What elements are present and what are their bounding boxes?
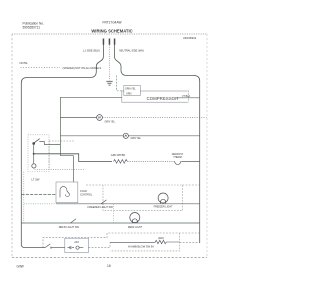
freezer light switch: [101, 200, 107, 204]
wire bus to cold control: [21, 194, 56, 196]
wire freezer light row: [56, 203, 200, 205]
condenser fan motor M1: [97, 115, 103, 121]
svg-text:GRN WH/BK: GRN WH/BK: [111, 154, 126, 157]
interior light lamp: [32, 164, 36, 168]
NOTE legend: [20, 61, 102, 70]
dashed border left: [11, 34, 13, 258]
freezer light dashed box: [103, 185, 182, 211]
dashed border right: [206, 34, 208, 258]
wire adj box out dashed: [88, 242, 110, 247]
shaded wire freezer row left dashed: [24, 203, 56, 205]
wire to condenser fan: [60, 117, 96, 119]
plug prong neutral: [109, 39, 111, 45]
svg-text:GRN YEL: GRN YEL: [105, 120, 116, 123]
wire hi-amb to bus dashed: [180, 241, 200, 243]
svg-text:WIRING SCHEMATIC: WIRING SCHEMATIC: [91, 28, 132, 33]
ground symbol: [106, 81, 112, 85]
wire L1 from plug to left bus: [21, 45, 103, 248]
svg-text:HI AMB BLOW SW 9A: HI AMB BLOW SW 9A: [128, 244, 154, 248]
ground wire dotted from middle prong: [109, 45, 111, 81]
evap fan motor M2: [123, 133, 128, 138]
shaded mullion wire dashed: [43, 233, 200, 248]
dashed border bottom: [12, 257, 207, 259]
hi-amb heater coil: [110, 240, 180, 243]
svg-text:24036901: 24036901: [183, 36, 197, 40]
wire switch to lamp: [33, 144, 35, 164]
svg-text:L1 SIDE (BLK): L1 SIDE (BLK): [83, 49, 100, 53]
svg-text:FRT17G4AW: FRT17G4AW: [103, 20, 122, 24]
wire thermostat to right bus: [182, 161, 200, 163]
refrigerator light row wire: [21, 222, 199, 224]
light circuit return dashed: [23, 172, 25, 223]
svg-text:THERM: THERM: [173, 156, 182, 159]
svg-text:GRN-YEL: GRN-YEL: [125, 87, 136, 90]
wire neutral from plug to right bus: [115, 45, 200, 244]
svg-text:(ADJ): (ADJ): [158, 237, 164, 240]
wire condenser fan to right bus dotted: [102, 117, 206, 119]
freezer light lamp: [158, 193, 168, 203]
shaded wire to freezer box dashed: [86, 184, 200, 186]
svg-text:GWF: GWF: [17, 265, 25, 269]
wire run winding to left vertical: [60, 96, 121, 98]
ground branch wire to compressor shell: [117, 76, 124, 91]
svg-text:COMPRESSOR: COMPRESSOR: [147, 96, 179, 101]
refr light lamp: [130, 213, 140, 223]
compressor box: [122, 91, 189, 103]
dashed border top: [12, 33, 207, 35]
svg-text:5995350711: 5995350711: [23, 26, 41, 30]
light switch dotted box LT SW: [28, 135, 49, 172]
svg-text:GRN: GRN: [126, 93, 132, 96]
refr light switch: [71, 219, 77, 223]
cold control box: [56, 182, 78, 203]
svg-text:NEUTRAL SIDE (WH): NEUTRAL SIDE (WH): [119, 50, 144, 53]
svg-text:16: 16: [107, 264, 111, 268]
hi-amb dashed box: [110, 233, 180, 251]
label DEFROST THERM: [172, 153, 184, 159]
svg-text:NOTE:: NOTE:: [20, 61, 29, 65]
svg-text:REFR LIGHT SW: REFR LIGHT SW: [59, 225, 80, 229]
wire into adj box: [53, 247, 65, 249]
wire vertical feeder: [59, 97, 61, 155]
door switch contact: [33, 139, 61, 145]
label COLD CONTROL: [80, 190, 93, 197]
svg-text:(SHADED) NOT ON ALL MODELS: (SHADED) NOT ON ALL MODELS: [63, 67, 102, 70]
shaded wire dashed vertical: [48, 141, 50, 170]
junction dot: [33, 153, 35, 155]
svg-text:ADJ: ADJ: [74, 241, 79, 244]
adj damper box: [65, 238, 89, 252]
adj damper input switch: [45, 244, 53, 248]
wire evap fan to right bus: [128, 135, 199, 137]
plug prong ground: [114, 39, 116, 45]
svg-text:GRN YEL: GRN YEL: [131, 137, 142, 140]
wire compressor to right bus: [177, 97, 200, 99]
svg-text:FREEZER LIGHT SW: FREEZER LIGHT SW: [88, 205, 114, 209]
svg-text:CONTROL: CONTROL: [80, 194, 93, 197]
header publication text: [23, 22, 45, 30]
svg-text:FREEZER LIGHT: FREEZER LIGHT: [154, 206, 173, 209]
svg-text:REFR LIGHT: REFR LIGHT: [128, 226, 143, 229]
wire step to cold control: [60, 156, 73, 182]
shaded wire dashed cross: [49, 140, 74, 142]
defrost thermostat: [174, 162, 182, 165]
dotted wire from lamp: [34, 168, 84, 170]
adj damper symbol: [68, 246, 75, 249]
compressor ground terminal box GRN-YEL: [124, 86, 141, 96]
cold control bellows symbol: [60, 187, 69, 198]
shaded drop freezer switch to refr row: [113, 204, 115, 223]
wire heater to thermostat: [128, 161, 174, 163]
plug prong L1: [103, 39, 105, 45]
wire heater feed green: [34, 154, 112, 162]
defrost heater zigzag: [114, 160, 128, 164]
svg-text:LT SW: LT SW: [32, 178, 40, 182]
wire to evap fan: [60, 135, 123, 137]
